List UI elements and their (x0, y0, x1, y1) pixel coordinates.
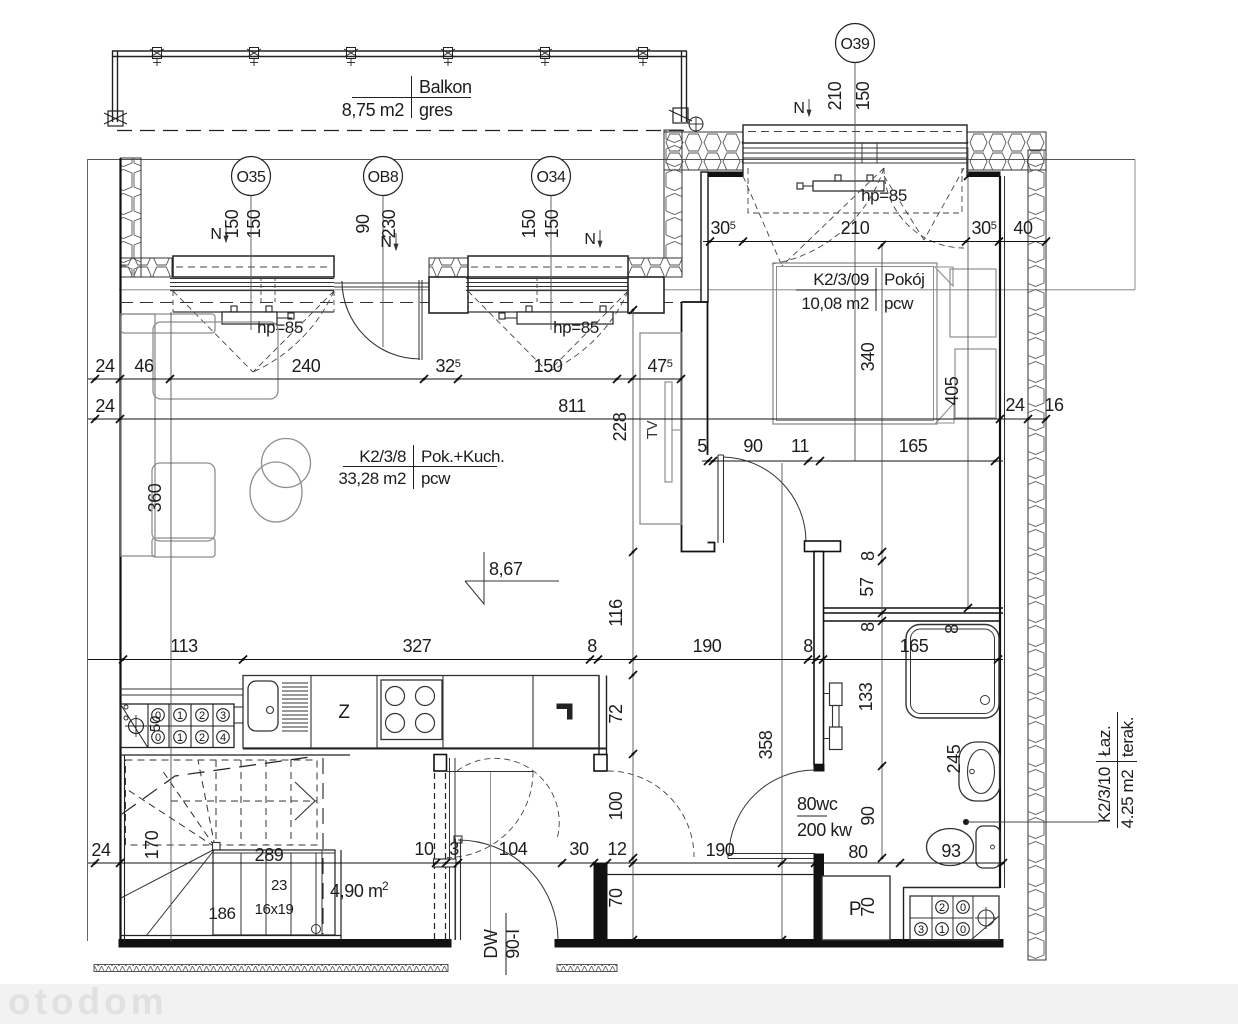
towel radiator upper (830, 683, 843, 706)
svg-text:pcw: pcw (421, 469, 451, 488)
svg-text:72: 72 (606, 704, 626, 724)
svg-text:N: N (584, 231, 595, 248)
window O35 outer sill band (173, 256, 334, 277)
bedroom window dashed reveal (748, 168, 962, 213)
insulation hatch bedroom top-left piece (664, 132, 743, 170)
svg-text:150: 150 (853, 81, 873, 110)
svg-text:230: 230 (379, 209, 399, 238)
svg-text:170: 170 (142, 830, 162, 859)
balcony door OB8 swing arc (342, 281, 420, 359)
svg-text:Łaz.: Łaz. (1095, 726, 1114, 757)
bathroom door leaf (728, 853, 815, 855)
dashed swing arc in hall (457, 758, 559, 839)
svg-text:90-I: 90-I (503, 929, 523, 958)
insulation hatch west band (121, 158, 142, 277)
svg-text:165: 165 (900, 636, 929, 656)
corridor / P-room north wall line (607, 874, 814, 876)
pavement hatch strip right (557, 965, 617, 972)
svg-text:12: 12 (607, 839, 627, 859)
window O34 inner sill line (468, 311, 628, 313)
long horizontal reference line upper (88, 159, 1135, 161)
hall T-wall cap (805, 541, 841, 552)
TV bracket (672, 429, 681, 431)
stairs left wall double (124, 755, 126, 941)
svg-text:O35: O35 (236, 169, 266, 186)
svg-text:10: 10 (414, 839, 434, 859)
beam line over hall opening (447, 771, 533, 773)
insulation hatch east band (1028, 150, 1046, 960)
dishwasher crosshair (129, 719, 144, 734)
window O35 casement dashed swing (173, 291, 334, 372)
svg-text:K2/3/10: K2/3/10 (1095, 767, 1114, 823)
svg-text:228: 228 (610, 412, 630, 441)
winder dashed treads (125, 788, 215, 847)
shower drain (981, 696, 990, 705)
insulation hatch pier between windows (429, 258, 468, 277)
balcony door OB8 leaf (418, 280, 420, 360)
insulation hatch right of O34 window (628, 258, 682, 277)
svg-text:24: 24 (1005, 395, 1025, 415)
washing machine box P (822, 876, 890, 940)
west outer wall (119, 158, 121, 941)
window circle O39 (836, 24, 875, 63)
svg-text:190: 190 (706, 840, 735, 860)
svg-text:133: 133 (856, 682, 876, 711)
bedroom west wall upper thin part (701, 172, 708, 302)
dim line y=863 (entry) (88, 862, 1003, 864)
towel radiator connector (833, 706, 840, 728)
niche wall near entry (594, 864, 607, 940)
bathroom west wall hinge piece (814, 854, 824, 876)
kitchen division sink end (310, 676, 312, 749)
railing corner post right (673, 108, 688, 123)
stairs bottom inner line (120, 935, 341, 937)
stair solid tread (290, 853, 292, 935)
bedroom south wall double line (823, 607, 1003, 609)
svg-text:24: 24 (91, 840, 111, 860)
window O35 inner sill line (173, 311, 334, 313)
washbasin tap (970, 769, 975, 774)
svg-text:8,75 m2: 8,75 m2 (342, 100, 405, 120)
svg-text:3: 3 (449, 839, 459, 859)
electrical box (910, 896, 999, 940)
svg-text:80wc: 80wc (797, 794, 838, 814)
svg-text:0: 0 (960, 924, 966, 936)
svg-text:46: 46 (134, 356, 154, 376)
svg-text:50: 50 (147, 716, 164, 732)
electrical box circled digits (936, 901, 949, 914)
svg-text:70: 70 (858, 897, 878, 917)
svg-text:4.25 m2: 4.25 m2 (1118, 770, 1137, 829)
svg-text:80: 80 (848, 842, 868, 862)
svg-text:4,90 m: 4,90 m (330, 881, 383, 901)
entry door hinge block (454, 836, 462, 843)
dashed swing arc at kitchen opening (447, 772, 533, 858)
svg-text:289: 289 (255, 845, 284, 865)
svg-text:150: 150 (534, 356, 563, 376)
stair right edge outer (340, 850, 342, 941)
svg-text:8: 8 (942, 624, 962, 634)
svg-text:terak.: terak. (1118, 717, 1137, 757)
svg-text:150: 150 (222, 209, 242, 238)
svg-text:2: 2 (199, 732, 205, 744)
kitchen counter bottom thick edge (243, 748, 607, 750)
svg-text:150: 150 (542, 209, 562, 238)
svg-text:gres: gres (419, 100, 453, 120)
bedroom window O39 recess box (743, 125, 967, 143)
svg-text:K2/3/09: K2/3/09 (813, 270, 869, 289)
svg-text:30: 30 (569, 839, 589, 859)
balcony label divider vline (411, 76, 413, 118)
window O34 glazing lines (466, 278, 630, 280)
bathroom north wall line (823, 620, 1000, 622)
stair solid tread (315, 853, 317, 935)
svg-text:8: 8 (858, 551, 878, 561)
svg-text:K2/3/8: K2/3/8 (359, 447, 406, 466)
radiator under O39 (813, 181, 884, 191)
svg-text:5: 5 (697, 436, 707, 456)
stairs direction arrow (295, 782, 315, 820)
toilet bowl (927, 829, 974, 866)
svg-text:10,08 m2: 10,08 m2 (801, 294, 869, 313)
svg-text:TV: TV (644, 420, 661, 439)
round table (262, 439, 311, 488)
railing post at x=643 (639, 48, 648, 59)
window O35 inner dashed reveal (172, 291, 174, 312)
TV set (665, 382, 672, 482)
kitchen division Z end (376, 676, 378, 749)
dim chain x=782 (781, 463, 783, 940)
O39 casement dashed swings (743, 168, 884, 266)
stair solid tread (265, 853, 267, 935)
window circle OB8 (364, 157, 403, 196)
dim line y=461 (bedroom door) (702, 460, 1003, 462)
svg-text:2: 2 (199, 710, 205, 722)
svg-text:245: 245 (944, 744, 964, 773)
window O35 mullion dash left (260, 277, 262, 302)
bedroom east wall inner face (999, 176, 1001, 888)
leader line to bathroom label (966, 821, 1099, 823)
stairs dashed mid landing line (171, 800, 317, 802)
bedroom north wall east segment (967, 172, 1000, 177)
shaft top cap (434, 859, 457, 867)
window O34 sill dashed centerline (471, 266, 625, 268)
svg-text:1: 1 (177, 710, 183, 722)
kitchen side wall (598, 676, 600, 755)
dashed swing arc neighbour door (608, 771, 694, 857)
svg-text:2: 2 (382, 879, 389, 893)
shower tray inner (911, 629, 995, 714)
stair dashed tread (240, 760, 242, 845)
stair circle mark (312, 925, 321, 934)
svg-text:405: 405 (942, 376, 962, 405)
balcony railing right end (681, 51, 683, 122)
kitchen counter outline (243, 676, 599, 749)
bed corner fold bottom-right (936, 403, 954, 423)
radiator under O35 (222, 312, 277, 324)
kitchen division stove end (442, 676, 444, 749)
bathroom south wall segment (903, 887, 1000, 889)
O39 reference line (854, 62, 856, 461)
sofa back along wall (121, 314, 155, 556)
dim line y=419 (88, 418, 1046, 420)
dim chain x=633 (632, 310, 634, 940)
bedroom window O39 glazing (743, 147, 967, 149)
towel radiator lower (830, 727, 843, 750)
stair dashed tread (290, 760, 292, 845)
sofa top armrest (121, 314, 215, 333)
kitchen sink bowl (248, 681, 278, 731)
svg-text:150: 150 (519, 209, 539, 238)
bathroom label rotated right side (1117, 712, 1119, 828)
svg-text:3: 3 (918, 924, 924, 936)
armchair ellipse (250, 462, 302, 522)
toilet cistern (976, 826, 1000, 868)
svg-text:Pok.+Kuch.: Pok.+Kuch. (421, 447, 504, 466)
radiator under O34 (517, 312, 613, 324)
jamb left of hall opening (434, 755, 447, 772)
svg-text:240: 240 (292, 356, 321, 376)
svg-text:327: 327 (403, 636, 432, 656)
svg-text:8,67: 8,67 (489, 559, 523, 579)
svg-text:210: 210 (825, 81, 845, 110)
OB8 reference line (382, 195, 384, 347)
cistern button (991, 845, 995, 849)
stair pivot square (213, 843, 221, 851)
svg-text:1: 1 (939, 924, 945, 936)
svg-text:Pokój: Pokój (884, 270, 925, 289)
kitchen wall ledge lines (120, 688, 243, 690)
dim chain west x=87.5 (87, 159, 89, 941)
O39 recess dashed line (748, 131, 962, 133)
long horizontal reference line mid (119, 289, 1135, 291)
O34 reference line (550, 195, 552, 330)
balcony door OB8 threshold lines (334, 282, 429, 284)
svg-text:200 kw: 200 kw (797, 820, 853, 840)
svg-text:N: N (793, 100, 804, 117)
railing post at x=545 (541, 48, 550, 59)
washbasin inner bowl (968, 750, 995, 794)
water supply dot (963, 819, 968, 824)
bathroom west wall door-side cap (814, 765, 824, 772)
dim chain x=882 (881, 245, 883, 858)
bed outer (773, 263, 937, 424)
dim line y=241.5 (bedroom top) (703, 241, 1046, 243)
svg-text:93: 93 (941, 841, 961, 861)
svg-text:190: 190 (693, 636, 722, 656)
corridor wc label (797, 815, 827, 817)
P-room west wall (814, 876, 824, 940)
entry door DW swing arc (458, 840, 558, 940)
svg-text:OB8: OB8 (368, 169, 399, 186)
jamb right of hall opening (594, 755, 607, 772)
svg-text:40: 40 (1013, 218, 1033, 238)
south wall west segment (119, 940, 451, 948)
living/bedroom thick wall outline (682, 302, 715, 552)
svg-text:150: 150 (244, 209, 264, 238)
svg-text:N: N (210, 226, 221, 243)
window O34 outer sill band (468, 256, 628, 277)
guide line x=490 entry hall (490, 772, 492, 938)
right reference connector (1134, 160, 1136, 290)
bed inner line (777, 267, 934, 421)
svg-text:811: 811 (558, 396, 586, 416)
balcony railing top rail (112, 50, 687, 52)
wardrobe lower (955, 349, 996, 418)
svg-text:210: 210 (841, 218, 870, 238)
svg-text:16: 16 (1044, 395, 1064, 415)
lower flight rect (213, 850, 335, 935)
lower flight top inner line (213, 852, 335, 854)
stair dashed tread (265, 760, 267, 845)
window O34 casement dashed swing (468, 291, 628, 372)
balcony floor dashed edge (117, 130, 688, 132)
circled digits row 1 (152, 709, 165, 722)
level mark 8,67 (483, 552, 485, 604)
survey point circle top right (689, 117, 703, 131)
svg-text:90: 90 (353, 214, 373, 234)
entry door DW leaf (455, 839, 457, 941)
window circle O34 (532, 157, 571, 196)
svg-text:2: 2 (939, 902, 945, 914)
stair dashed tread (215, 760, 217, 845)
insulation hatch top-left corner piece (121, 258, 173, 277)
stairs top boundary (120, 754, 350, 756)
sofa chaise cushion (153, 322, 278, 399)
svg-text:90: 90 (743, 436, 763, 456)
shower tray outer (906, 625, 999, 719)
insulation hatch bedroom top-right piece (967, 132, 1046, 170)
railing post at x=157 (153, 48, 162, 59)
winder solid treads (121, 849, 215, 898)
svg-text:360: 360 (145, 483, 165, 512)
south wall east segment (555, 940, 1003, 948)
living room label block (413, 445, 415, 489)
svg-text:3: 3 (220, 710, 226, 722)
svg-text:4: 4 (220, 732, 226, 744)
svg-text:O34: O34 (536, 169, 566, 186)
bedroom label block (875, 268, 877, 311)
svg-text:358: 358 (756, 730, 776, 759)
svg-text:0: 0 (960, 902, 966, 914)
pavement hatch strip left (94, 965, 448, 972)
svg-text:24: 24 (95, 356, 115, 376)
svg-text:340: 340 (858, 342, 878, 371)
svg-text:104: 104 (499, 839, 528, 859)
electrical box diagonal (971, 916, 999, 940)
svg-text:Z: Z (338, 702, 350, 723)
O35 reference line (250, 195, 252, 330)
svg-text:pcw: pcw (884, 294, 914, 313)
kitchen-left unit box (121, 704, 235, 748)
svg-text:186: 186 (208, 904, 235, 923)
svg-text:24: 24 (95, 396, 115, 416)
bedroom door leaf (717, 455, 719, 543)
stairs dashed axis right (322, 758, 324, 934)
shaft dashed walls (434, 773, 436, 939)
sofa bottom armrest (152, 538, 215, 557)
svg-text:165: 165 (899, 436, 928, 456)
svg-text:Balkon: Balkon (419, 77, 472, 97)
svg-text:57: 57 (857, 577, 877, 597)
svg-text:0: 0 (155, 732, 161, 744)
svg-text:8: 8 (803, 636, 813, 656)
window O34 inner dashed reveal (467, 291, 469, 312)
stair cut zigzag long dashes (122, 757, 310, 814)
svg-text:113: 113 (170, 636, 198, 656)
window O35 mullion dash right (274, 277, 276, 302)
window O35 glazing lines (170, 278, 334, 280)
svg-text:100: 100 (606, 791, 626, 820)
wall connector at x=823 (822, 608, 824, 621)
balcony railing left end (112, 51, 114, 122)
svg-text:90: 90 (858, 806, 878, 826)
kitchen stove (381, 680, 442, 740)
svg-text:hp=85: hp=85 (257, 318, 303, 337)
svg-text:70: 70 (606, 888, 626, 908)
wardrobe upper (950, 269, 996, 337)
axis line x=171 (170, 312, 172, 941)
bathroom door swing arc (729, 770, 815, 856)
dim line y=659.5 (kitchen) (88, 659, 1003, 661)
svg-text:8: 8 (858, 622, 878, 632)
window jamb reference line x=968 (967, 147, 969, 608)
bottom gray band (0, 984, 1238, 1024)
fridge symbol (rotated L) (557, 704, 572, 719)
TV cabinet (640, 333, 682, 524)
unit diagonal flap (121, 705, 148, 747)
stair solid tread (240, 853, 242, 935)
window O35 sill dashed centerline (176, 266, 331, 268)
svg-text:116: 116 (606, 599, 626, 627)
stairs dashed upper flight outline (126, 760, 318, 845)
svg-text:23: 23 (271, 877, 287, 894)
railing post at x=351 (347, 48, 356, 59)
svg-text:33,28 m2: 33,28 m2 (338, 469, 406, 488)
connector notch to sink unit (234, 706, 243, 708)
svg-text:8: 8 (587, 636, 597, 656)
bedroom door swing arc (724, 457, 807, 541)
railing post at x=254 (250, 48, 259, 59)
svg-text:11: 11 (791, 436, 809, 456)
railing corner post left (108, 111, 123, 126)
entry door label DW/90-I (505, 913, 507, 975)
bathroom west wall upper (814, 552, 824, 765)
shaft solid side wall lines (449, 758, 451, 940)
railing post at x=448 (444, 48, 453, 59)
svg-text:DW: DW (481, 929, 501, 959)
kitchen sink drainer lines (282, 682, 308, 684)
kitchen division fridge start (532, 676, 534, 749)
insulation hatch loggia side band (664, 130, 682, 258)
svg-text:1: 1 (177, 732, 183, 744)
bedroom north wall west segment (708, 172, 743, 177)
svg-text:O39: O39 (840, 36, 870, 53)
wall pier between door and window O34 (429, 277, 468, 313)
svg-text:otodom: otodom (8, 981, 168, 1022)
wall pier right end of living room (628, 277, 664, 313)
stair flight inner right edge (321, 850, 323, 935)
bed corner fold top-right (935, 267, 953, 286)
washbasin outer (959, 742, 1000, 801)
balcony label divider hline (352, 97, 471, 99)
sofa seat cushion (152, 463, 215, 541)
inner face dashed line of north wall (120, 302, 682, 304)
electrical box crosshair (978, 910, 994, 926)
kitchen sink faucet (267, 707, 274, 714)
window circle O35 (232, 157, 271, 196)
dim line y=379 (88, 378, 681, 380)
